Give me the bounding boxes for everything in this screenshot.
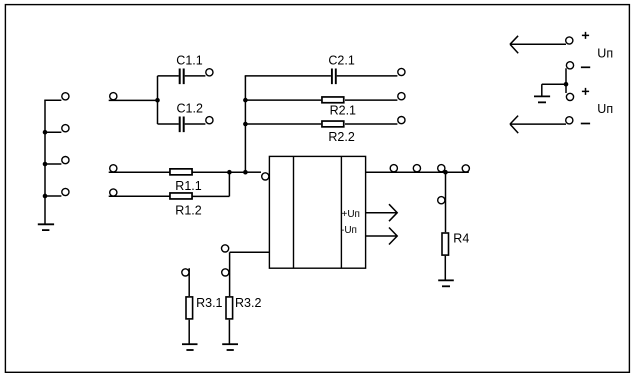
svg-text:R2.1: R2.1 bbox=[330, 104, 356, 118]
connector X1 vertical wire bbox=[44, 100, 46, 225]
wire C2.1 right bbox=[337, 75, 398, 77]
resistor R3.2 bbox=[226, 297, 233, 319]
terminal circle input R1.1 bbox=[110, 165, 117, 172]
wire R1.2 right bbox=[193, 195, 230, 197]
wire R1.2 up to node bbox=[228, 172, 230, 196]
wire junction to supply + mid bbox=[565, 84, 567, 93]
wire R2.1 right bbox=[345, 99, 397, 101]
capacitor C2.1 bbox=[332, 69, 336, 85]
wire to U1 lower input bbox=[230, 251, 270, 253]
svg-text:-Uп: -Uп bbox=[341, 225, 357, 236]
svg-text:R3.2: R3.2 bbox=[235, 296, 261, 310]
arrow supply -Un bottom bbox=[510, 116, 566, 134]
label - bottom supply bbox=[581, 123, 590, 125]
resistor R2.1 bbox=[322, 97, 344, 103]
wire C1.2 right bbox=[185, 123, 206, 125]
terminal circle pin2 bbox=[62, 125, 69, 132]
terminal circle supply + mid bbox=[566, 93, 573, 100]
node junction bus bottom bbox=[243, 170, 248, 175]
svg-text:R4: R4 bbox=[453, 232, 469, 246]
terminal circle R2.1 bbox=[398, 93, 405, 100]
terminal circle supply - bottom bbox=[566, 117, 573, 124]
terminal circle U1 lower input bbox=[222, 245, 229, 252]
ground GND3 bbox=[182, 343, 198, 345]
wire down to R3.2 bbox=[229, 252, 231, 296]
wire R3.2 to ground bbox=[228, 320, 230, 345]
terminal circle pin4 bbox=[62, 188, 69, 195]
wire supply mid vertical bbox=[565, 68, 567, 84]
U1 inner line right bbox=[340, 156, 342, 268]
svg-text:Uп: Uп bbox=[597, 102, 613, 116]
arrow +Un output bbox=[366, 204, 397, 221]
svg-text:Uп: Uп bbox=[597, 47, 613, 61]
capacitor C1.2 bbox=[180, 117, 184, 133]
wire ground stem bbox=[541, 84, 543, 96]
node junction output bbox=[443, 170, 448, 175]
svg-text:R3.1: R3.1 bbox=[196, 296, 222, 310]
ground GND5 bbox=[534, 95, 550, 97]
wire R3.1 circle to resistor bbox=[188, 268, 190, 296]
svg-text:C1.2: C1.2 bbox=[177, 101, 203, 115]
wire bus to C2.1 bbox=[245, 75, 331, 77]
terminal circle input C1 bbox=[110, 93, 117, 100]
wire U1 output bbox=[366, 171, 469, 173]
wire R1.1 right bbox=[193, 171, 230, 173]
terminal circle out1 bbox=[390, 165, 397, 172]
wire bus node to U1 pin bbox=[245, 171, 261, 173]
capacitor C1.1 bbox=[180, 69, 184, 85]
node junction bus R2.2 bbox=[243, 122, 248, 127]
wire node to bus bbox=[229, 171, 245, 173]
node junction pin4 bbox=[43, 194, 48, 199]
wire pin2 bbox=[45, 131, 61, 133]
terminal circle out3 bbox=[438, 165, 445, 172]
wire pin4 bbox=[45, 195, 61, 197]
arrow -Un output bbox=[366, 228, 397, 245]
node junction bus R2.1 bbox=[243, 98, 248, 103]
resistor R2.2 bbox=[322, 121, 344, 127]
terminal circle out2 bbox=[413, 165, 420, 172]
op-amp U1 box bbox=[269, 156, 365, 268]
U1 inner line left bbox=[293, 156, 295, 268]
terminal circle pin1 bbox=[62, 93, 69, 100]
wire supply mid to ground bbox=[542, 83, 566, 85]
node junction pin2 bbox=[43, 130, 48, 135]
wire R2.2 right bbox=[345, 123, 397, 125]
terminal circle pin3 bbox=[62, 157, 69, 164]
pin circle U1 input bbox=[262, 173, 269, 180]
resistor R1.2 bbox=[170, 193, 192, 199]
ground GND4 bbox=[222, 343, 238, 345]
terminal circle C1.2 bbox=[206, 117, 213, 124]
node junction supply mid bbox=[564, 82, 569, 87]
svg-text:+Uп: +Uп bbox=[342, 209, 360, 220]
wire pin3 bbox=[45, 163, 61, 165]
wire bus vertical bbox=[244, 76, 246, 172]
wire C1.1 right bbox=[185, 75, 206, 77]
label + top supply bbox=[582, 32, 589, 39]
ground GND2 bbox=[438, 279, 454, 281]
terminal circle C1.1 bbox=[206, 69, 213, 76]
wire bus to R2.1 bbox=[245, 99, 321, 101]
wire input to R1.2 bbox=[109, 195, 170, 197]
resistor R3.1 bbox=[186, 297, 193, 319]
label + mid supply bbox=[582, 88, 589, 95]
svg-text:C1.1: C1.1 bbox=[176, 54, 202, 68]
svg-text:R1.1: R1.1 bbox=[175, 179, 201, 193]
resistor R4 bbox=[442, 233, 449, 255]
wire bus to R2.2 bbox=[245, 123, 321, 125]
terminal circle R2.2 bbox=[398, 117, 405, 124]
label - mid supply bbox=[581, 66, 590, 68]
terminal circle supply - mid bbox=[566, 62, 573, 69]
node junction C1 branch bbox=[155, 98, 160, 103]
svg-text:R2.2: R2.2 bbox=[328, 130, 354, 144]
wire R4 to ground bbox=[444, 256, 446, 280]
wire C1 branch vertical bbox=[157, 76, 159, 124]
svg-text:C2.1: C2.1 bbox=[328, 54, 354, 68]
node junction R1 bbox=[227, 170, 232, 175]
terminal circle input R1.2 bbox=[110, 189, 117, 196]
wire C1.1 left bbox=[158, 75, 179, 77]
wire input to R1.1 bbox=[109, 171, 170, 173]
terminal circle out4 bbox=[462, 165, 469, 172]
wire output down to R4 bbox=[445, 172, 447, 232]
wire C1.2 left bbox=[158, 123, 179, 125]
terminal circle supply + top bbox=[566, 37, 573, 44]
node junction pin3 bbox=[43, 162, 48, 167]
arrow supply +Un top bbox=[510, 36, 566, 54]
terminal circle R3.1 top bbox=[182, 269, 189, 276]
terminal circle R4 tap bbox=[438, 197, 445, 204]
ground GND1 bbox=[38, 223, 54, 225]
svg-text:R1.2: R1.2 bbox=[175, 203, 201, 217]
resistor R1.1 bbox=[170, 169, 192, 175]
terminal circle R3.2 tap bbox=[222, 269, 229, 276]
wire input to C1 branch bbox=[109, 99, 158, 101]
wire R3.1 to ground bbox=[188, 320, 190, 345]
wire pin1 bbox=[44, 99, 61, 101]
terminal circle C2.1 bbox=[398, 68, 405, 75]
